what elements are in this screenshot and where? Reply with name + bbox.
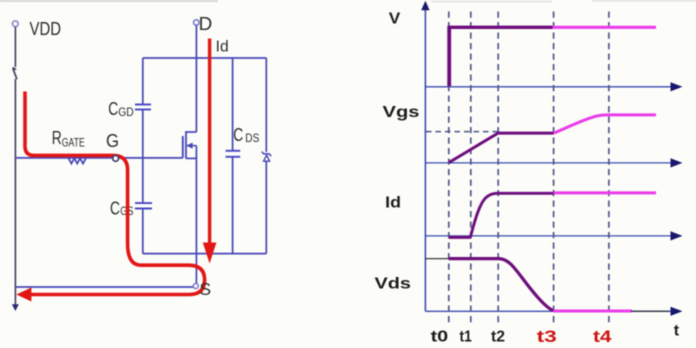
dashed line t2 xyxy=(497,12,499,326)
arrow bottom of left rail xyxy=(12,304,19,311)
dashed line t4 xyxy=(608,12,610,326)
svg-text:GD: GD xyxy=(118,107,134,119)
gate wire xyxy=(15,157,183,159)
svg-text:R: R xyxy=(52,127,62,148)
node G xyxy=(113,156,119,162)
svg-text:t1: t1 xyxy=(460,329,472,346)
svg-text:C: C xyxy=(110,197,120,218)
waveform V rise xyxy=(447,27,451,86)
svg-text:t2: t2 xyxy=(491,329,505,346)
wire VDD vertical upper xyxy=(14,27,16,67)
crop artifact line top-left xyxy=(0,0,218,2)
red Id current line xyxy=(208,39,211,244)
axis V xyxy=(425,86,671,88)
dashed line t0 xyxy=(448,12,450,326)
waveform V dark flat xyxy=(447,26,552,29)
svg-text:t4: t4 xyxy=(593,328,613,346)
terminal VDD xyxy=(12,21,18,27)
dashed Miller plateau level xyxy=(426,131,498,133)
diode D1 symbol xyxy=(262,152,271,157)
waveform Id magenta xyxy=(554,191,656,194)
red return arrowhead xyxy=(16,288,31,302)
svg-text:t: t xyxy=(674,322,680,339)
svg-text:t3: t3 xyxy=(537,328,557,346)
svg-text:Vgs: Vgs xyxy=(383,104,420,121)
bottom rail xyxy=(143,253,266,255)
svg-text:GATE: GATE xyxy=(62,136,85,150)
svg-text:G: G xyxy=(106,131,119,151)
source wire down to S xyxy=(195,158,197,283)
svg-text:DS: DS xyxy=(245,133,259,145)
red gate current path xyxy=(25,92,205,295)
svg-text:Vds: Vds xyxy=(375,276,412,293)
dashed line t1 xyxy=(470,12,472,326)
axis Vgs xyxy=(425,162,671,164)
svg-text:V: V xyxy=(389,10,401,27)
wire CGD/CGS branch xyxy=(142,58,144,104)
capacitor C_GS xyxy=(135,202,152,204)
axis Id xyxy=(425,235,671,237)
wire VDD vertical lower xyxy=(14,79,16,305)
transistor Q1 (MOSFET) xyxy=(186,132,196,159)
waveform Vds magenta xyxy=(553,310,632,313)
svg-text:Id: Id xyxy=(385,194,401,211)
waveform Vds dark xyxy=(449,259,553,311)
top rail xyxy=(143,57,266,59)
red Id arrowhead xyxy=(203,243,217,264)
svg-text:C: C xyxy=(108,98,118,119)
terminal D xyxy=(194,20,199,25)
node S xyxy=(193,284,198,289)
wire C_DS branch xyxy=(232,58,234,151)
crop artifact line top-middle xyxy=(431,1,552,3)
drain wire xyxy=(195,25,197,132)
svg-text:D: D xyxy=(199,13,213,34)
axis t xyxy=(425,310,671,312)
svg-text:t0: t0 xyxy=(431,329,449,346)
resistor R_GATE xyxy=(69,158,86,163)
waveform Vgs magenta xyxy=(554,115,656,133)
capacitor C_GD xyxy=(135,104,151,106)
svg-text:C: C xyxy=(233,124,243,145)
vertical axis xyxy=(424,9,426,311)
return wire S to left rail xyxy=(15,286,193,288)
svg-text:Id: Id xyxy=(216,39,229,56)
switch S1 xyxy=(13,68,17,80)
wire body-diode branch xyxy=(265,58,267,152)
waveform V magenta flat xyxy=(553,26,657,29)
waveform Id dark xyxy=(449,193,554,237)
axis dark tail xyxy=(631,310,669,312)
waveform Vds thin lead-in xyxy=(425,258,449,260)
dashed line t3 xyxy=(553,12,555,326)
capacitor C_DS xyxy=(226,150,241,152)
waveform Vgs dark xyxy=(449,133,554,163)
svg-text:VDD: VDD xyxy=(30,19,62,39)
svg-text:S: S xyxy=(200,279,212,299)
crop artifact line top-right xyxy=(592,0,696,2)
